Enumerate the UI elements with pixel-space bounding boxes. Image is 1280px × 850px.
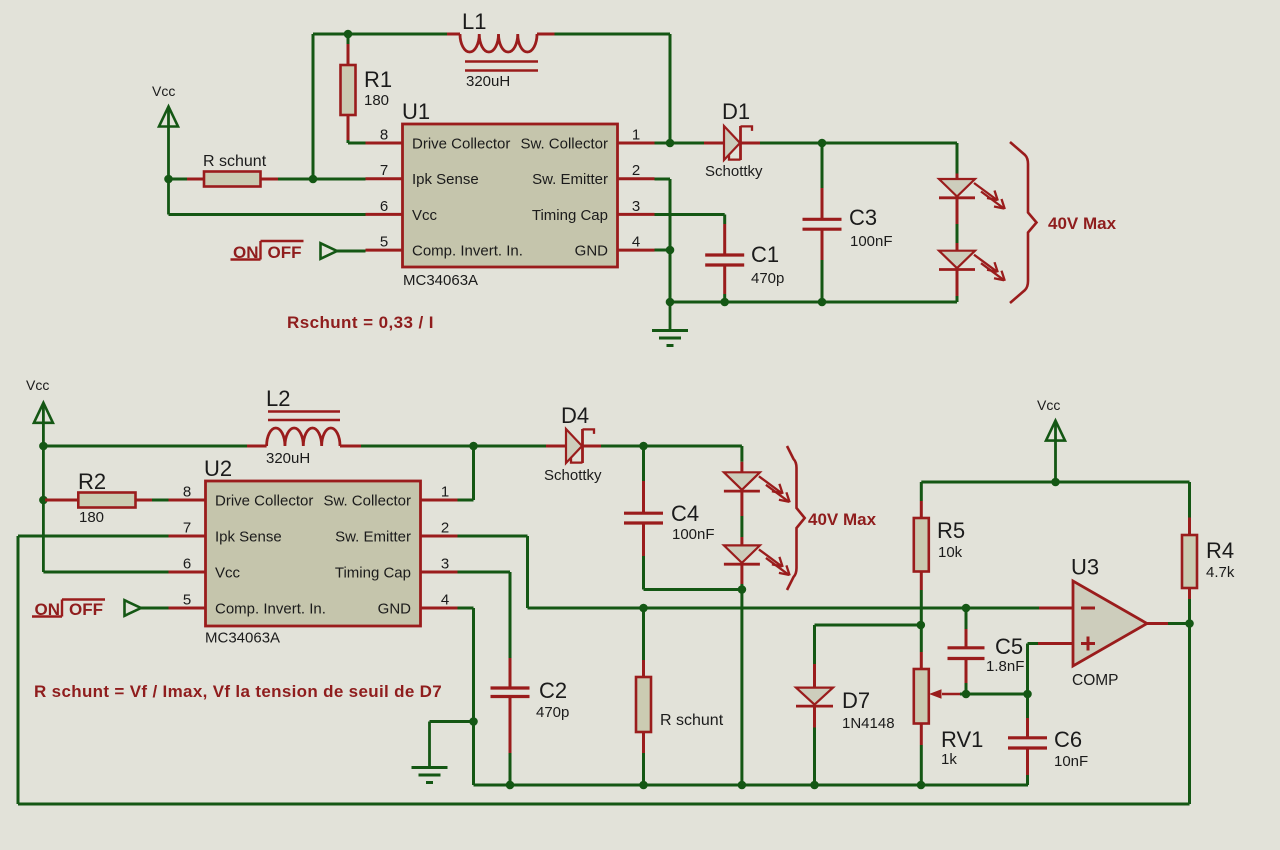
svg-text:D1: D1 [722, 99, 750, 124]
svg-text:Schottky: Schottky [705, 163, 763, 180]
svg-text:OFF: OFF [69, 600, 103, 619]
svg-text:Sw. Emitter: Sw. Emitter [532, 171, 608, 188]
svg-text:Sw. Collector: Sw. Collector [520, 136, 608, 153]
svg-text:Ipk Sense: Ipk Sense [412, 171, 479, 188]
svg-text:10nF: 10nF [1054, 753, 1088, 770]
svg-text:Vcc: Vcc [412, 207, 438, 224]
svg-text:180: 180 [79, 509, 104, 526]
svg-text:3: 3 [441, 556, 449, 573]
svg-text:MC34063A: MC34063A [205, 630, 280, 647]
svg-text:R5: R5 [937, 518, 965, 543]
svg-text:Sw. Emitter: Sw. Emitter [335, 529, 411, 546]
svg-text:GND: GND [575, 243, 609, 260]
svg-text:6: 6 [380, 198, 388, 215]
svg-text:4: 4 [441, 592, 449, 609]
svg-text:Vcc: Vcc [1037, 397, 1060, 413]
svg-text:6: 6 [183, 556, 191, 573]
svg-text:1.8nF: 1.8nF [986, 658, 1024, 675]
svg-text:D4: D4 [561, 403, 589, 428]
svg-text:C3: C3 [849, 205, 877, 230]
svg-text:40V Max: 40V Max [1048, 214, 1117, 233]
svg-text:R schunt = Vf / Imax, Vf la te: R schunt = Vf / Imax, Vf la tension de s… [34, 682, 442, 701]
svg-text:Drive Collector: Drive Collector [215, 493, 313, 510]
svg-text:7: 7 [380, 162, 388, 179]
svg-text:Timing Cap: Timing Cap [335, 565, 411, 582]
svg-text:R2: R2 [78, 469, 106, 494]
svg-text:7: 7 [183, 520, 191, 537]
svg-text:1: 1 [632, 127, 640, 144]
svg-text:100nF: 100nF [672, 526, 715, 543]
svg-text:180: 180 [364, 92, 389, 109]
svg-text:C2: C2 [539, 678, 567, 703]
svg-text:L1: L1 [462, 9, 486, 34]
svg-text:470p: 470p [751, 270, 784, 287]
svg-text:8: 8 [183, 484, 191, 501]
svg-text:5: 5 [380, 234, 388, 251]
svg-text:320uH: 320uH [466, 73, 510, 90]
svg-text:Ipk Sense: Ipk Sense [215, 529, 282, 546]
svg-text:320uH: 320uH [266, 450, 310, 467]
svg-text:1k: 1k [941, 751, 957, 768]
svg-text:4: 4 [632, 234, 640, 251]
svg-text:3: 3 [632, 198, 640, 215]
svg-text:Schottky: Schottky [544, 467, 602, 484]
svg-text:1: 1 [441, 484, 449, 501]
svg-text:C5: C5 [995, 634, 1023, 659]
svg-text:D7: D7 [842, 688, 870, 713]
svg-text:Rschunt = 0,33 / I: Rschunt = 0,33 / I [287, 313, 434, 332]
svg-text:U1: U1 [402, 99, 430, 124]
svg-text:C1: C1 [751, 242, 779, 267]
svg-text:1N4148: 1N4148 [842, 715, 895, 732]
svg-text:2: 2 [632, 162, 640, 179]
svg-text:100nF: 100nF [850, 233, 893, 250]
svg-text:R schunt: R schunt [660, 712, 724, 729]
svg-text:GND: GND [378, 601, 412, 618]
svg-text:RV1: RV1 [941, 727, 983, 752]
svg-text:COMP: COMP [1072, 672, 1119, 689]
svg-text:Comp. Invert. In.: Comp. Invert. In. [215, 601, 326, 618]
svg-text:Timing Cap: Timing Cap [532, 207, 608, 224]
svg-text:MC34063A: MC34063A [403, 272, 478, 289]
svg-text:2: 2 [441, 520, 449, 537]
svg-text:R1: R1 [364, 67, 392, 92]
svg-text:Vcc: Vcc [215, 565, 241, 582]
svg-text:L2: L2 [266, 386, 290, 411]
svg-text:40V Max: 40V Max [808, 510, 877, 529]
svg-text:4.7k: 4.7k [1206, 564, 1235, 581]
svg-text:Sw. Collector: Sw. Collector [323, 493, 411, 510]
svg-text:R schunt: R schunt [203, 153, 267, 170]
svg-text:C6: C6 [1054, 727, 1082, 752]
svg-text:OFF: OFF [268, 243, 302, 262]
svg-text:U3: U3 [1071, 555, 1099, 580]
svg-text:Drive Collector: Drive Collector [412, 136, 510, 153]
svg-text:R4: R4 [1206, 538, 1234, 563]
svg-text:Comp. Invert. In.: Comp. Invert. In. [412, 243, 523, 260]
svg-text:470p: 470p [536, 704, 569, 721]
svg-text:10k: 10k [938, 544, 963, 561]
svg-text:5: 5 [183, 592, 191, 609]
svg-text:U2: U2 [204, 456, 232, 481]
svg-text:Vcc: Vcc [152, 83, 175, 99]
svg-text:C4: C4 [671, 501, 699, 526]
svg-text:Vcc: Vcc [26, 377, 49, 393]
svg-text:8: 8 [380, 127, 388, 144]
